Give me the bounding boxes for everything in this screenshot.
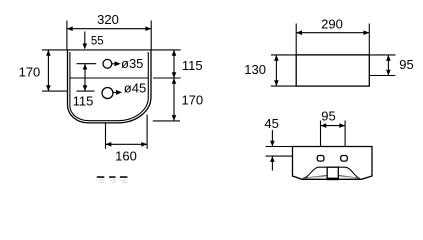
dimension 95 right: line — [387, 55, 389, 76]
dimension 95 bottom: dimension line — [321, 125, 346, 127]
basin inner outline — [70, 52, 148, 121]
dimension 95 bottom: arrowheads — [321, 123, 327, 128]
bottom edge extension left — [271, 85, 296, 87]
basin top edge with extensions (line y=49.6 from x=42 to x=180.6) — [42, 49, 181, 51]
leader arrow for ø45 — [113, 90, 122, 95]
waterline / middle line with right extension — [70, 77, 148, 79]
tap hole right — [341, 156, 348, 162]
svg-text:290: 290 — [321, 16, 343, 31]
dimension 130: line — [275, 55, 277, 86]
dimension 55: down arrowhead — [83, 44, 88, 50]
extension line bottom right of basin — [153, 120, 180, 122]
svg-text:95: 95 — [321, 108, 335, 123]
right dims arrowheads at top — [172, 50, 177, 56]
hole circle ø35 — [103, 59, 112, 68]
dimension 160: dimension line — [106, 143, 148, 145]
dimension 290: extension lines — [295, 24, 297, 55]
svg-text:115: 115 — [182, 58, 203, 73]
dimension 115 between holes: arrowheads — [83, 64, 88, 70]
drain rectangle — [327, 167, 338, 179]
dimension 170 left: line — [47, 50, 49, 91]
dimension 320: dimension line — [67, 28, 151, 30]
bowl inner edge left — [304, 175, 328, 178]
svg-text:130: 130 — [244, 62, 266, 77]
dimension 130: arrowheads — [274, 55, 279, 61]
svg-text:320: 320 — [97, 12, 119, 27]
dimension 115 between holes: line — [84, 64, 86, 91]
svg-text:45: 45 — [264, 116, 278, 131]
svg-text:170: 170 — [19, 65, 41, 80]
dimension 160: arrowheads — [106, 142, 112, 147]
dimension 55: arrow line — [84, 32, 86, 49]
svg-text:55: 55 — [91, 35, 104, 47]
dimension 320: extension lines — [66, 21, 68, 50]
dimension 170 left: arrowheads — [46, 50, 51, 56]
cut-off text dashes (top of clipped label) — [97, 176, 128, 183]
svg-text:115: 115 — [73, 93, 94, 108]
bowl outer curve left — [303, 167, 360, 178]
thick bottom segment under drain — [327, 178, 340, 181]
right dims arrowheads at bottom — [172, 115, 177, 121]
lower extension line (45 bottom) — [266, 155, 293, 157]
hole2 centerline extension left — [42, 90, 67, 92]
dimension 290: dimension line — [296, 32, 369, 34]
basin outer outline — [68, 50, 152, 123]
hole1 centerline tick — [77, 63, 97, 65]
hole circle ø45 — [102, 88, 113, 99]
top edge extension left — [266, 146, 293, 148]
svg-text:ø45: ø45 — [124, 81, 146, 96]
dimension 290: arrowheads — [296, 30, 302, 35]
dimension 45: lower arrow — [270, 156, 275, 170]
bowl inner edge right — [338, 175, 359, 178]
right dims arrowheads at middle — [172, 72, 177, 78]
svg-text:95: 95 — [399, 57, 413, 72]
dimension 320: arrowheads — [67, 26, 73, 31]
side view rectangle — [296, 55, 369, 86]
top edge extensions (left for 130, right for 95) — [271, 54, 396, 56]
step extension line right (95 bottom) — [369, 75, 395, 77]
svg-text:160: 160 — [115, 148, 137, 163]
hole2 centerline tick inside — [77, 90, 95, 92]
svg-text:ø35: ø35 — [121, 56, 143, 71]
tap hole left — [317, 156, 324, 162]
front view outline with chamfered bottom corners — [293, 147, 373, 180]
dimension 160: extension lines — [105, 123, 107, 149]
dimension 115/170 right: shared line — [173, 50, 175, 121]
dimension 95 right: arrowheads — [386, 55, 391, 61]
dimension 45: upper arrow — [270, 130, 275, 147]
dimension 95 bottom: extension lines — [320, 121, 322, 147]
svg-text:170: 170 — [181, 92, 203, 107]
leader arrow for ø35 — [112, 61, 121, 66]
